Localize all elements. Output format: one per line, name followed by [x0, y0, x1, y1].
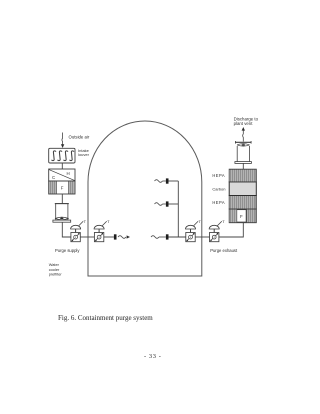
caption: Fig. 6. Containment purge system	[58, 314, 153, 322]
valve T3 (purge exhaust inside)	[186, 221, 199, 242]
exhaust branch 3 register	[166, 234, 169, 239]
svg-text:Carbon: Carbon	[212, 186, 225, 191]
svg-text:T: T	[84, 219, 87, 224]
wire: branch 3 to valve T3	[159, 236, 166, 238]
svg-text:prefilter: prefilter	[49, 271, 63, 276]
carbon adsorber	[229, 182, 256, 196]
wire: filter train to exhaust fan	[242, 163, 244, 169]
svg-text:T: T	[199, 219, 202, 224]
exhaust branch 2 register	[166, 201, 169, 206]
wire: branch 1 to header	[163, 180, 166, 182]
containment building outline	[88, 121, 202, 276]
svg-text:Purge supply: Purge supply	[55, 248, 80, 253]
wire: valve T4 to filter train inlet	[219, 223, 243, 237]
wire: valve T1 to valve T2 through containment wall	[80, 236, 94, 238]
exhaust fan	[235, 141, 252, 163]
svg-text:Purge exhaust: Purge exhaust	[210, 248, 238, 253]
svg-text:F: F	[61, 186, 64, 191]
exhaust branch 3 wavy inlet	[151, 236, 159, 239]
exhaust prefilter F	[229, 209, 256, 223]
exhaust branch 1 register	[166, 178, 169, 183]
valve T4 (purge exhaust outside)	[209, 221, 222, 242]
HEPA filter (lower)	[229, 196, 256, 210]
svg-text:HEPA: HEPA	[212, 173, 225, 178]
svg-text:T: T	[222, 219, 225, 224]
svg-text:Outside air: Outside air	[69, 134, 90, 139]
svg-text:C: C	[52, 175, 55, 180]
wire: branch 2 to header	[163, 203, 166, 205]
valve T2 (purge supply inside)	[94, 221, 107, 242]
outside air inlet wavy line	[61, 133, 64, 145]
outside air arrowhead	[61, 144, 64, 148]
svg-text:H: H	[67, 171, 70, 176]
exhaust branch 1 wavy inlet	[155, 180, 163, 183]
wire: filter to supply fan	[61, 194, 63, 204]
discharge arrowhead	[242, 127, 245, 131]
svg-text:louver: louver	[78, 152, 90, 157]
supply fan	[53, 204, 71, 223]
intake louver housing	[49, 148, 75, 163]
svg-text:T: T	[107, 219, 110, 224]
svg-text:F: F	[240, 214, 243, 219]
heater/cooler coil C/H	[49, 169, 75, 181]
exhaust branch 2 wavy inlet	[155, 203, 163, 206]
discharge wavy line	[242, 131, 245, 142]
wire: fan down and to valve T1	[62, 222, 71, 237]
HEPA filter (upper)	[229, 169, 256, 182]
svg-text:HEPA: HEPA	[212, 200, 225, 205]
wire: valve T3 to valve T4 through containment wall	[195, 236, 209, 238]
supply discharge wavy arrow	[118, 236, 126, 239]
page number	[144, 353, 161, 360]
valve T1 (purge supply outside)	[71, 221, 84, 242]
exhaust header pipe (inside containment)	[177, 181, 179, 237]
wire: louver to heater/cooler	[61, 163, 63, 169]
supply filter F	[49, 181, 75, 194]
svg-text:plant vent: plant vent	[234, 121, 254, 126]
supply register (black damper)	[114, 234, 117, 239]
wire: valve T2 to supply register	[104, 236, 114, 238]
